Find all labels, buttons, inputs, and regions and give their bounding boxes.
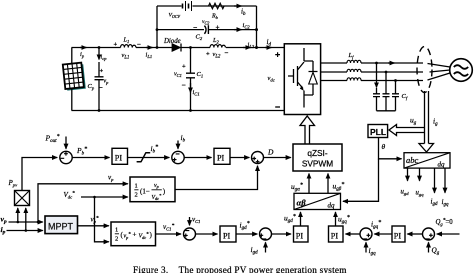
PI block PI5 (329, 226, 344, 242)
wire PI3 to S5 (236, 233, 257, 235)
svg-text:igq: igq (442, 198, 450, 208)
node Vdc* branch (93, 196, 96, 199)
inductor L2 (206, 37, 229, 59)
block alpha-beta to dq (294, 193, 341, 209)
svg-text:−: − (99, 83, 103, 92)
summing junction S5 (259, 228, 271, 240)
capacitor C2 (193, 19, 220, 41)
wire PI5 up to ab block (335, 212, 337, 226)
multiplier X box (15, 191, 30, 206)
wire i_L2 arrow (243, 42, 255, 50)
svg-text:PI: PI (331, 231, 339, 240)
wire S2 to PI2 (184, 157, 211, 159)
node after diode (189, 46, 192, 49)
inductor Lf phase c (347, 78, 361, 81)
PI block PI3 (220, 226, 236, 242)
capacitor C1 (174, 48, 203, 111)
summing junction S6 (360, 228, 372, 240)
svg-text:ip: ip (1, 225, 6, 236)
wire PI6 to S6 (374, 233, 392, 235)
svg-text:−: − (193, 23, 197, 32)
svg-text:Lf: Lf (348, 52, 355, 60)
wire u_gd output arrow (401, 168, 410, 196)
capacitor Cp (88, 62, 110, 111)
wire vp up into multiplier (17, 208, 19, 222)
svg-text:Qg: Qg (432, 247, 440, 257)
svg-text:Diode: Diode (163, 38, 181, 45)
PI block PI6 (392, 226, 405, 242)
wire main dc rail (72, 47, 285, 49)
wire i_p arrow (80, 48, 87, 59)
svg-text:iC1: iC1 (193, 89, 200, 97)
svg-text:1: 1 (115, 227, 118, 234)
svg-text:iL2: iL2 (248, 42, 255, 50)
wire S1 to PI1 (72, 157, 109, 159)
svg-text:iL1: iL1 (146, 52, 153, 60)
svg-text:PI: PI (223, 231, 231, 240)
svg-text:2: 2 (115, 236, 118, 243)
svg-text:vp: vp (108, 174, 114, 182)
svg-text:ugα*: ugα* (291, 182, 303, 193)
wire i_p into MPPT (7, 230, 43, 232)
limiter saturation symbol (137, 153, 149, 162)
svg-text:igq: igq (369, 246, 377, 257)
wire S7 to PI6 (407, 233, 422, 235)
svg-text:PLL: PLL (370, 127, 386, 137)
wire ugbeta* up arrow (327, 174, 329, 194)
wire ugalpha* up arrow (308, 174, 310, 194)
resistor R_b (209, 3, 225, 20)
PI block PI2 (214, 148, 230, 164)
svg-text:+: + (206, 51, 210, 58)
summing junction S1 (60, 151, 72, 163)
diode D1 (163, 38, 181, 52)
wire u_gq output arrow (416, 168, 425, 197)
svg-text:Figure 3. The proposed PV p: Figure 3. The proposed PV power generati… (133, 265, 347, 273)
summing junction S3 (252, 152, 264, 164)
svg-text:αβ: αβ (297, 198, 307, 208)
svg-text:vL2: vL2 (213, 51, 221, 59)
wire i_gd up arrow (251, 242, 266, 255)
wire vp branch up to divider block (38, 184, 128, 222)
svg-text:icp: icp (101, 54, 108, 61)
block capacitor ref 1/2(vp*+Vdc*) (111, 222, 156, 246)
svg-text:iC2: iC2 (243, 22, 251, 30)
svg-text:C1: C1 (197, 71, 204, 79)
svg-text:PI: PI (296, 231, 304, 240)
wire S3 to qZSI block (264, 157, 291, 159)
wire Ppv to S1 (22, 158, 57, 191)
svg-text:−: − (182, 81, 186, 90)
svg-text:igd: igd (251, 245, 259, 256)
wire three phase lines (321, 63, 347, 81)
wire duty input from half block (175, 166, 258, 190)
hollow arrow into PLL (389, 125, 425, 136)
summing junction S2 (172, 151, 184, 163)
svg-text:−: − (225, 49, 229, 57)
svg-text:ugq: ugq (416, 190, 425, 198)
svg-text:vdc: vdc (268, 75, 275, 82)
inductor Lf phase b (347, 69, 361, 72)
block shoot-through ratio 1/2(1-vp/Vdc*) (130, 177, 175, 202)
hollow arrow qZSI to inverter (300, 116, 315, 144)
wire S5 to PI4 (272, 233, 292, 235)
svg-text:ip: ip (80, 51, 85, 59)
node qZS left junction (156, 28, 159, 49)
summing junction S4 (184, 228, 196, 240)
svg-text:Pb*: Pb* (76, 146, 87, 157)
svg-text:D: D (267, 148, 274, 157)
svg-text:SVPWM: SVPWM (302, 159, 333, 169)
grid source (450, 59, 473, 82)
svg-text:vC1: vC1 (174, 72, 182, 78)
svg-text:Cf: Cf (402, 93, 408, 101)
svg-text:id: id (267, 37, 272, 48)
capacitor Cf bank (373, 93, 408, 111)
svg-text:Rb: Rb (211, 14, 219, 21)
svg-text:+: + (114, 41, 118, 48)
node bottom junctions (98, 109, 192, 112)
svg-text:1: 1 (135, 183, 138, 190)
wire Vdc* into divider block (81, 196, 128, 198)
svg-text:dq: dq (328, 202, 336, 210)
svg-text:PI: PI (217, 154, 225, 163)
svg-text:VOCV: VOCV (169, 13, 181, 19)
svg-text:vC2: vC2 (202, 19, 209, 25)
svg-text:MPPT: MPPT (48, 222, 74, 232)
transformer dashed ellipse (417, 47, 432, 93)
wire MPPT to sum block (78, 225, 109, 227)
battery V_OCV (169, 1, 192, 19)
svg-text:ib*: ib* (151, 144, 159, 155)
svg-text:dq: dq (438, 161, 446, 169)
svg-text:−: − (137, 41, 141, 49)
svg-text:vp: vp (104, 79, 110, 85)
wire C2 branch rail (157, 29, 257, 31)
inductor L1 (114, 37, 142, 61)
wire PI4 up to ab block (300, 212, 302, 226)
node qZS right junction (255, 28, 258, 49)
wire i_d arrow (265, 37, 272, 48)
wire left vertical of battery loop (156, 6, 158, 48)
svg-text:+: + (100, 68, 104, 75)
wire sum block to S4 (156, 233, 182, 235)
svg-text:vp: vp (154, 183, 159, 189)
svg-text:2: 2 (135, 192, 138, 199)
svg-text:Ppv: Ppv (8, 179, 19, 188)
transistor IGBT inside inverter (288, 48, 313, 108)
svg-text:igd*: igd* (240, 221, 250, 232)
svg-text:igd: igd (431, 198, 439, 208)
svg-text:(1−: (1− (140, 188, 150, 196)
wire i_gd output arrow (431, 168, 439, 207)
svg-text:ugd*: ugd* (284, 214, 296, 225)
wire PV left vertical (71, 48, 73, 111)
wire i_L1 arrow (146, 48, 153, 60)
svg-text:igq*: igq* (371, 220, 381, 231)
svg-text:L1: L1 (123, 37, 130, 45)
svg-text:ugd: ugd (401, 189, 410, 197)
wire battery loop top rail (157, 5, 257, 7)
node vp ip branch junctions (17, 221, 40, 232)
svg-text:ig: ig (433, 117, 438, 128)
svg-text:Qg*=0: Qg*=0 (436, 218, 454, 227)
svg-text:+: + (182, 63, 186, 70)
wire phase lines to transformer (361, 63, 423, 81)
svg-text:PI: PI (115, 154, 123, 163)
block abc to dq (404, 153, 450, 169)
diode antiparallel inside inverter (309, 61, 318, 95)
wire i_b down arrow (178, 133, 186, 149)
node Cp top junction (98, 46, 101, 49)
wire bottom dc rail (72, 110, 285, 112)
wire ug ig measurement shafts (425, 91, 429, 144)
wire right vertical of battery loop (256, 6, 258, 48)
svg-text:PI: PI (394, 231, 402, 240)
wire Cf drops (377, 63, 396, 94)
svg-text:+: + (133, 231, 137, 239)
wire Q_g up arrow (429, 242, 440, 256)
wire ip up into multiplier (25, 208, 27, 231)
wire i_cp arrow (99, 48, 107, 61)
node filter tap junctions (375, 62, 397, 82)
wire theta down to ab block (343, 159, 379, 202)
svg-text:vp: vp (1, 214, 7, 225)
svg-text:+: + (216, 24, 220, 32)
svg-text:vC1: vC1 (192, 216, 200, 224)
svg-text:ib: ib (241, 8, 246, 18)
wire theta to abc block (379, 138, 402, 159)
svg-text:ug: ug (410, 116, 417, 127)
inductor Lf phase a (347, 60, 361, 63)
svg-text:θ: θ (382, 142, 386, 151)
wire transformer to grid fan (428, 64, 451, 81)
svg-text:Pout*: Pout* (45, 134, 60, 145)
wire v_C1 down arrow (190, 216, 201, 226)
wire i_gq up arrow (366, 242, 376, 256)
wire S4 to PI3 (196, 233, 218, 235)
svg-text:Cp: Cp (88, 83, 95, 91)
wire i_gq output arrow (442, 168, 450, 208)
svg-text:vC1*: vC1* (163, 223, 174, 232)
svg-text:ugβ*: ugβ* (333, 182, 345, 193)
wire PI2 to S3 (230, 157, 249, 159)
solar panel PV (63, 62, 86, 90)
block qZSI-SVPWM (293, 144, 342, 171)
wire Qg* into S7 (437, 233, 460, 235)
wire Vdc* down to sum block (95, 197, 109, 242)
MPPT block (45, 216, 78, 234)
svg-text:ib: ib (181, 133, 186, 144)
wire v_p into MPPT (9, 221, 43, 223)
summing junction S7 (423, 228, 435, 240)
wire P_out* down arrow (65, 137, 67, 149)
svg-text:ugq*: ugq* (338, 215, 350, 226)
svg-text:abc: abc (406, 155, 419, 165)
inverter bridge box (268, 44, 321, 115)
svg-text:Vdc*: Vdc* (64, 191, 76, 200)
wire S6 to PI5 (346, 233, 361, 235)
svg-text:vL1: vL1 (122, 52, 130, 60)
wire i_C1 arrow (191, 83, 200, 97)
PLL block (368, 125, 388, 138)
hollow arrow into abc block (419, 144, 434, 153)
PI block PI1 (112, 148, 128, 164)
PI block PI4 (294, 226, 309, 242)
svg-text:C2: C2 (196, 34, 203, 42)
svg-text:qZSI-: qZSI- (307, 148, 328, 158)
svg-text:L2: L2 (212, 37, 220, 45)
wire PI1 to S2 with limiter (128, 157, 170, 159)
